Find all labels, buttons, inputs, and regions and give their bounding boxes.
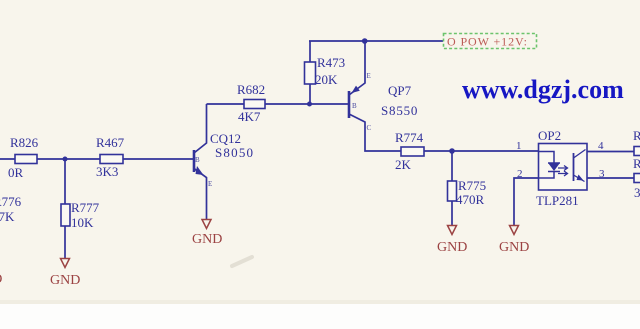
svg-text:R: R <box>633 128 640 143</box>
svg-text:1: 1 <box>516 140 522 152</box>
svg-text:R467: R467 <box>96 135 125 150</box>
op-amp / optocoupler U OP2 TLP281 box <box>536 128 587 208</box>
svg-text:B: B <box>195 156 200 164</box>
wire emitter CQ12 down to ground <box>194 169 207 220</box>
wire OP2 pin4 out right <box>587 151 634 153</box>
ground under R775 <box>437 226 467 256</box>
wire R777 branch down <box>64 159 66 258</box>
svg-text:B: B <box>352 102 357 110</box>
svg-text:GND: GND <box>499 240 529 255</box>
node junction dot (R774/R775/pin1) <box>449 148 455 154</box>
wire R682 row y104 <box>207 103 349 105</box>
wire OP2 pin3 out right <box>587 177 634 179</box>
transistor QP7 base bar <box>348 91 351 118</box>
svg-text:10K: 10K <box>71 215 94 230</box>
svg-text:O POW +12V:: O POW +12V: <box>447 35 528 49</box>
wire OP2 pin2 to ground <box>514 178 538 225</box>
svg-text:E: E <box>208 180 212 188</box>
transistor QP7 emitter arrow (PNP, points to bar) <box>352 86 360 93</box>
svg-text:4K7: 4K7 <box>238 109 261 124</box>
svg-text:E: E <box>367 72 371 80</box>
OP2 internal light arrows <box>558 166 568 177</box>
svg-text:R826: R826 <box>10 135 39 150</box>
svg-text:3: 3 <box>599 168 605 180</box>
resistor R467 <box>96 135 125 179</box>
resistor R775 <box>448 178 487 207</box>
svg-text:R774: R774 <box>395 130 424 145</box>
svg-text:R682: R682 <box>237 82 265 97</box>
resistor cut off right bottom <box>633 156 640 200</box>
svg-text:2K: 2K <box>395 157 412 172</box>
svg-text:QP7: QP7 <box>388 83 412 98</box>
svg-text:R777: R777 <box>71 200 100 215</box>
wire R775 branch down <box>451 151 453 225</box>
svg-text:CQ12: CQ12 <box>210 131 241 146</box>
OP2 internal phototransistor <box>573 153 575 181</box>
svg-text:4: 4 <box>598 140 604 152</box>
transistor CQ12 labels <box>195 131 254 188</box>
wire main left rail y159 <box>0 158 194 160</box>
wire QP7 emitter to rail <box>349 41 365 95</box>
ground under R777 <box>50 259 80 289</box>
svg-text:GND: GND <box>50 273 80 288</box>
resistor R776 labels (cut off at left edge) <box>0 194 22 224</box>
svg-text:R: R <box>633 156 640 171</box>
svg-text:www.dgzj.com: www.dgzj.com <box>462 75 624 104</box>
transistor CQ12 emitter arrow <box>196 166 204 175</box>
svg-text:GND: GND <box>192 232 222 247</box>
node junction dot on +12V rail <box>362 38 368 44</box>
wire QP7 collector down and R774 row y151 <box>349 114 538 151</box>
svg-text:OP2: OP2 <box>538 128 561 143</box>
svg-text:GND: GND <box>0 272 2 287</box>
svg-text:S8050: S8050 <box>215 145 254 160</box>
ground under OP2 pin2 <box>499 226 529 256</box>
resistor R682 <box>237 82 265 124</box>
ground under CQ12 emitter <box>192 220 222 248</box>
svg-text:0R: 0R <box>8 165 24 180</box>
resistor cut off right top <box>633 128 640 156</box>
resistor R826 <box>8 135 39 180</box>
resistor R774 <box>395 130 424 172</box>
OP2 internal LED <box>539 152 561 179</box>
svg-text:2: 2 <box>517 168 523 180</box>
transistor QP7 labels <box>352 72 418 132</box>
net label O POW +12V with green dashed highlight <box>444 34 537 49</box>
svg-text:R473: R473 <box>317 55 345 70</box>
svg-text:C: C <box>367 124 372 132</box>
svg-text:47K: 47K <box>0 209 15 224</box>
faint smudge mark <box>232 257 252 266</box>
svg-text:S8550: S8550 <box>381 103 418 118</box>
node junction dot (R682/R473/QP7 base) <box>307 102 312 107</box>
resistor R777 <box>61 200 100 230</box>
svg-text:TLP281: TLP281 <box>536 193 579 208</box>
svg-text:3K3: 3K3 <box>96 164 118 179</box>
wire R473 vertical <box>309 41 311 104</box>
svg-text:R776: R776 <box>0 194 22 209</box>
wire top +12V rail <box>309 40 443 42</box>
svg-text:R775: R775 <box>458 178 486 193</box>
svg-text:GND: GND <box>437 240 467 255</box>
resistor R473 <box>305 55 346 87</box>
transistor CQ12 base bar <box>193 150 196 172</box>
wire collector CQ12 up to R682 row <box>194 104 207 153</box>
node junction dot A (R826/R467/R777) <box>63 157 68 162</box>
svg-text:470R: 470R <box>456 192 485 207</box>
svg-text:20K: 20K <box>315 72 338 87</box>
svg-text:3: 3 <box>634 185 640 200</box>
